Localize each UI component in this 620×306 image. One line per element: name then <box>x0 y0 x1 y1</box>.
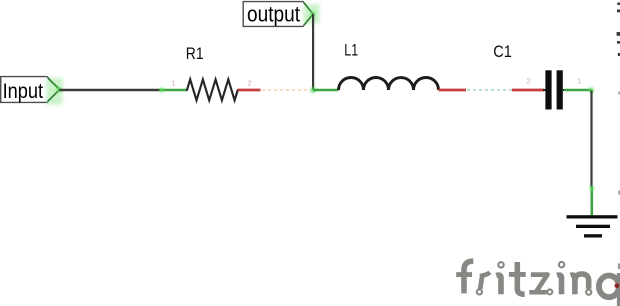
resistor R1 zigzag <box>187 79 238 100</box>
letter n <box>571 275 575 294</box>
svg-text:1: 1 <box>171 78 175 87</box>
ground symbol GND <box>567 215 618 237</box>
letter i stem 1 <box>496 275 501 294</box>
C1 pin 2 (red, ratsnest only) <box>512 88 545 93</box>
L1 pin 1 (green, connected) <box>313 87 339 93</box>
C1 pin 1 (green, connected) <box>564 86 595 94</box>
svg-text:2: 2 <box>248 78 252 87</box>
R1 pin 1 (green, connected) <box>158 87 187 94</box>
Input connector green highlight <box>47 78 63 105</box>
ground pin (green, connected) <box>589 185 595 215</box>
capacitor C1 plates <box>543 70 567 109</box>
svg-text:Input: Input <box>3 79 44 103</box>
inductor L1 coil <box>339 78 439 91</box>
fritzing watermark logo <box>456 261 620 306</box>
letter f <box>464 261 473 293</box>
letter z <box>531 275 548 293</box>
wire Input to R1 <box>60 89 161 92</box>
wire C1 down to ground <box>590 91 592 188</box>
letter i dot 1 <box>498 262 503 267</box>
L1 pin 2 (red, ratsnest only) <box>439 88 467 93</box>
svg-text:R1: R1 <box>186 45 204 63</box>
svg-text:output: output <box>247 1 300 26</box>
net label flag Input <box>1 77 60 103</box>
cut-off marks right edge <box>617 3 620 270</box>
ratsnest wire L1.2 to C1.2 (green dashed) <box>467 89 512 91</box>
letter i dot 2 <box>559 262 564 267</box>
node junction glow <box>309 86 317 94</box>
letter g (partially cut off) <box>599 276 619 298</box>
svg-text:L1: L1 <box>344 41 358 60</box>
output connector green highlight <box>304 3 320 25</box>
svg-text:1: 1 <box>577 76 581 85</box>
net label flag output <box>243 1 313 26</box>
R1 pin 2 (red, ratsnest only) <box>238 88 261 93</box>
wire output flag down to node <box>312 14 314 90</box>
letter i stem 2 <box>557 275 562 294</box>
svg-text:2: 2 <box>527 76 531 85</box>
svg-text:C1: C1 <box>493 43 512 61</box>
letter r <box>477 289 482 294</box>
ratsnest wire R1.2 to node (orange dashed) <box>262 89 311 91</box>
red dot near g <box>615 283 620 288</box>
letter t <box>517 262 524 294</box>
